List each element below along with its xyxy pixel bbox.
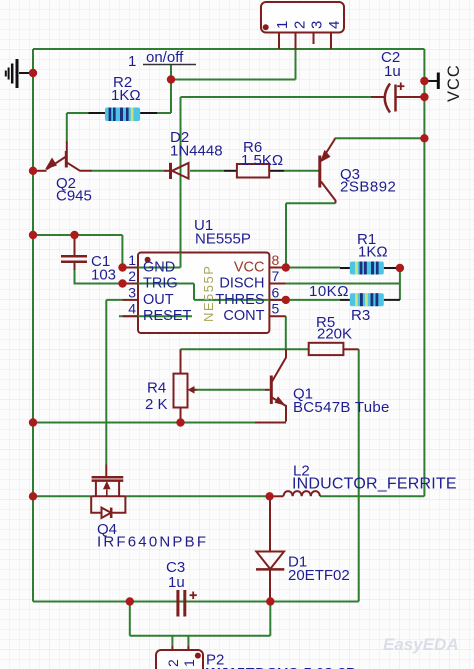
svg-text:1: 1 [274,21,291,29]
svg-text:WJ15EDGVC-5.08-2P: WJ15EDGVC-5.08-2P [206,665,356,669]
svg-text:2 K: 2 K [145,396,168,413]
svg-text:NE555P: NE555P [201,265,216,322]
svg-text:2: 2 [292,21,309,29]
svg-text:220K: 220K [317,326,352,343]
svg-text:3: 3 [128,284,136,300]
svg-text:10KΩ: 10KΩ [309,283,349,300]
svg-text:DISCH: DISCH [219,276,264,292]
svg-text:TRIG: TRIG [143,276,178,292]
svg-text:THRES: THRES [215,292,264,308]
svg-text:5: 5 [272,301,280,317]
svg-text:1: 1 [128,252,136,268]
svg-text:1: 1 [128,53,136,70]
svg-text:1KΩ: 1KΩ [111,87,141,104]
svg-text:103: 103 [91,267,116,284]
svg-text:OUT: OUT [143,292,174,308]
svg-text:2SB892: 2SB892 [340,179,396,196]
svg-text:VCC: VCC [234,260,265,276]
svg-text:RESET: RESET [143,308,191,324]
svg-text:INDUCTOR_FERRITE: INDUCTOR_FERRITE [292,476,457,493]
svg-text:3: 3 [309,21,326,29]
svg-text:4: 4 [128,301,136,317]
svg-text:1KΩ: 1KΩ [358,244,388,261]
svg-text:2: 2 [165,659,181,667]
svg-text:4: 4 [326,21,343,29]
svg-text:1u: 1u [168,574,185,591]
svg-text:8: 8 [272,252,280,268]
svg-text:C945: C945 [56,188,92,205]
svg-text:CONT: CONT [223,308,264,324]
svg-text:1N4448: 1N4448 [170,143,223,160]
svg-text:IRF640NPBF: IRF640NPBF [97,534,208,551]
svg-text:7: 7 [272,268,280,284]
svg-text:NE555P: NE555P [195,231,251,248]
svg-text:EasyEDA: EasyEDA [383,635,459,654]
svg-text:6: 6 [272,284,280,300]
svg-text:R4: R4 [147,380,166,397]
svg-text:R3: R3 [351,307,370,324]
svg-text:20ETF02: 20ETF02 [288,567,350,584]
svg-text:on/off: on/off [146,49,184,66]
svg-text:2: 2 [128,268,136,284]
svg-text:1: 1 [181,659,197,667]
svg-text:1.5KΩ: 1.5KΩ [241,152,283,169]
svg-text:BC547B Tube: BC547B Tube [293,399,390,416]
svg-text:GND: GND [143,260,175,276]
svg-text:VCC: VCC [445,64,463,102]
svg-text:1u: 1u [384,63,401,80]
